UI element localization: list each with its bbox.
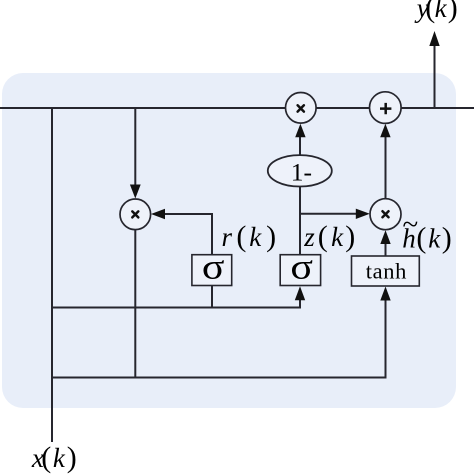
svg-text:z: z [303,222,315,252]
arrowhead into left multiplier (down) [130,185,141,199]
svg-text:): ) [442,222,452,255]
svg-text:): ) [266,220,276,253]
svg-text:(: ( [236,220,246,253]
label r(k) [222,220,277,253]
tanh box [352,256,420,286]
arrowhead into right multiplier (up) [380,230,390,244]
svg-text:(: ( [416,222,426,255]
wire: z branch right into right multiplier [300,213,358,215]
svg-text:k: k [331,222,344,252]
wire: main horizontal h(k-1) line [0,107,474,109]
label x(k) [31,441,77,474]
wire: sigma z output up with branch [299,187,301,255]
multiplier circle (top, forget product) [286,93,317,124]
svg-text:): ) [67,441,77,474]
multiplier circle (left, reset gate product) [120,199,151,230]
label z(k) [303,220,355,253]
svg-text:σ: σ [202,247,225,287]
arrowhead into sigma z (up) [295,286,305,300]
wire: branch down to left multiplier [134,108,136,188]
sigma box z gate [280,255,320,286]
svg-text:k: k [428,224,441,254]
svg-text:tanh: tanh [366,259,407,284]
arrowhead into left multiplier (left) [151,209,165,219]
sigma box r gate [192,255,232,286]
arrowhead into top multiplier (up) [295,124,305,138]
wire: right multiplier output up into adder [385,134,387,199]
label y(k) [414,0,458,24]
svg-text:r: r [222,222,233,252]
svg-text:k: k [53,443,66,473]
wire: bottom bus to tanh [52,296,386,378]
wire: x(k) input vertical line [51,108,53,442]
arrowhead y(k) up [429,31,439,46]
svg-text:(: ( [41,441,51,474]
svg-text:(: ( [318,220,328,253]
arrowhead into right multiplier (right) [356,209,370,219]
adder circle [370,92,402,124]
wire: middle bus to sigma gates [52,296,300,308]
wire: tanh output up into right multiplier [385,240,387,256]
svg-text:σ: σ [290,247,313,287]
wire: sigma r output up and left into multiplier [163,214,212,255]
multiplier circle (right, update product) [370,199,401,230]
GRU cell body (rounded blue rectangle) [2,73,456,408]
wire: 1-z up into top multiplier [299,134,301,155]
svg-text:k: k [249,222,262,252]
svg-text:1-: 1- [291,157,312,186]
svg-text:): ) [345,220,355,253]
one-minus ellipse [268,155,332,186]
wire: left multiplier output down [134,230,136,378]
label h~(k) [402,209,451,255]
arrowhead into tanh (up) [380,287,390,301]
wire: y(k) output branch [434,43,436,108]
svg-text:): ) [448,0,458,24]
arrowhead into adder (up) [380,124,390,137]
wire: branch up into sigma r [211,286,213,308]
svg-text:k: k [435,0,448,23]
